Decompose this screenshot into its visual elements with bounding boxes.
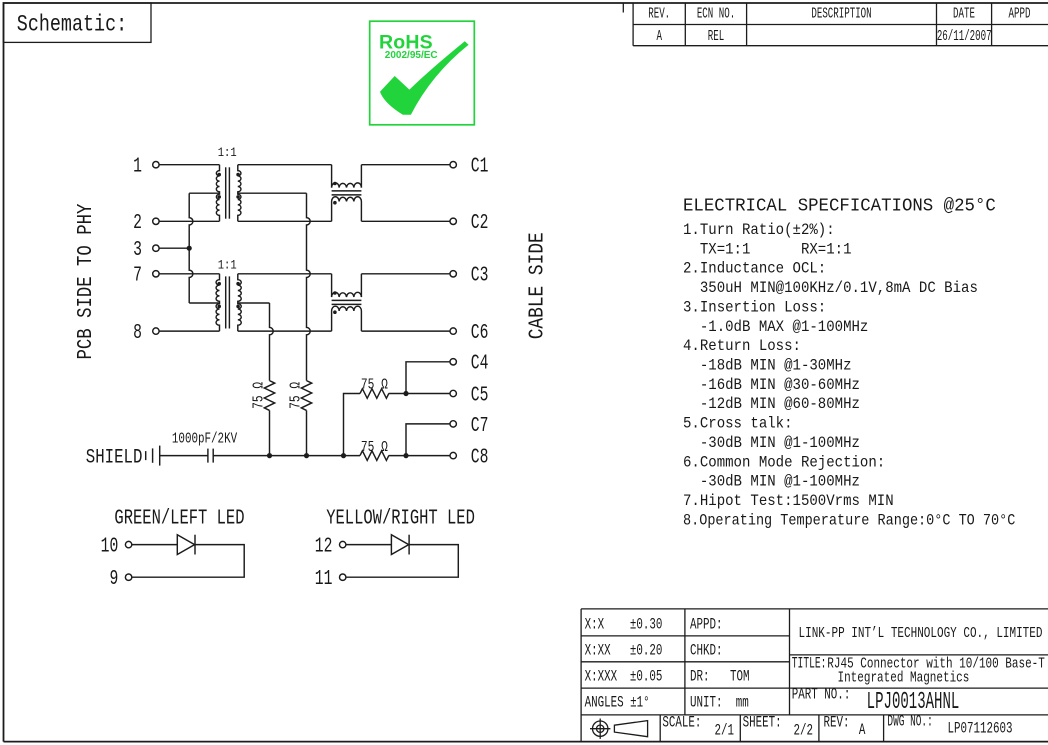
node title block <box>581 609 1048 742</box>
svg-text:±0.05: ±0.05 <box>630 669 663 686</box>
svg-text:CABLE SIDE: CABLE SIDE <box>525 232 549 339</box>
svg-text:REV:: REV: <box>824 715 850 732</box>
wire shield to C1000 <box>160 455 208 457</box>
svg-text:DWG NO.:: DWG NO.: <box>887 712 932 730</box>
wire 10 anode <box>132 544 178 546</box>
svg-text:12: 12 <box>315 535 333 558</box>
node pin 7 <box>133 264 159 287</box>
svg-text:C2: C2 <box>471 212 489 235</box>
svg-text:1:1: 1:1 <box>218 257 237 272</box>
diode LED green <box>177 535 195 555</box>
wire pin2 to T1 primary bottom <box>159 220 219 222</box>
wire T2 secondary top to CMC2 <box>238 273 332 275</box>
wire CMC to C1 <box>361 164 450 166</box>
node terminal C3 <box>450 264 488 287</box>
wire R4 to C8 <box>389 455 450 457</box>
svg-text:ANGLES ±1°: ANGLES ±1° <box>585 695 650 712</box>
svg-text:8: 8 <box>133 322 142 345</box>
svg-text:CHKD:: CHKD: <box>690 643 723 660</box>
svg-text:2002/95/EC: 2002/95/EC <box>385 50 438 61</box>
svg-text:PART NO.:: PART NO.: <box>792 687 851 704</box>
junction rail R2 <box>304 453 309 458</box>
resistor R3 75ohm <box>360 389 389 399</box>
svg-text:2/2: 2/2 <box>794 723 814 740</box>
wire pin7 to T2 primary top <box>159 273 219 275</box>
svg-text:1:1: 1:1 <box>218 145 237 160</box>
svg-text:350uH MIN@100KHz/0.1V,8mA DC B: 350uH MIN@100KHz/0.1V,8mA DC Bias <box>683 278 978 297</box>
svg-text:5.Cross talk:: 5.Cross talk: <box>683 414 793 433</box>
svg-text:-30dB MIN @1-100MHz: -30dB MIN @1-100MHz <box>683 433 860 452</box>
svg-text:ECN NO.: ECN NO. <box>697 6 735 23</box>
wire CMC to C2 <box>361 220 450 222</box>
wire C7 branch <box>406 424 450 456</box>
diode LED yellow <box>391 535 409 555</box>
wire pin1 to T1 primary top <box>159 164 219 166</box>
node terminal C5 <box>450 384 488 407</box>
svg-text:2: 2 <box>133 212 142 235</box>
transformer T2 1:1 <box>216 274 241 331</box>
svg-text:YELLOW/RIGHT LED: YELLOW/RIGHT LED <box>326 507 475 531</box>
wire center-tap vertical rail with hops <box>189 193 193 303</box>
svg-text:8.Operating Temperature Range:: 8.Operating Temperature Range:0°C TO 70°… <box>683 513 1015 530</box>
node pin 3 <box>133 239 159 262</box>
node pin 9 <box>109 568 131 591</box>
node terminal C4 <box>450 352 488 375</box>
wire T1 secondary top to CMC1 <box>238 164 332 166</box>
svg-text:4.Return Loss:: 4.Return Loss: <box>683 336 801 355</box>
wire T1 primary center tap <box>189 192 219 194</box>
transformer T1 1:1 <box>216 165 241 222</box>
svg-text:75 Ω: 75 Ω <box>361 438 388 455</box>
node pin 1 <box>133 155 159 178</box>
svg-text:X:X: X:X <box>585 617 605 634</box>
svg-text:2.Inductance OCL:: 2.Inductance OCL: <box>683 259 826 278</box>
node pin 8 <box>133 322 159 345</box>
node top fold mark <box>622 3 624 13</box>
svg-text:6.Common Mode Rejection:: 6.Common Mode Rejection: <box>683 452 885 471</box>
svg-text:C5: C5 <box>471 384 489 407</box>
wire T2 secondary center tap to R1 <box>238 302 270 304</box>
svg-text:SHIELD: SHIELD <box>86 447 143 469</box>
svg-text:APPD:: APPD: <box>690 617 723 634</box>
wire R3 left leg <box>344 394 361 456</box>
node Schematic title box <box>4 3 152 42</box>
svg-text:3: 3 <box>133 239 142 262</box>
svg-text:2/1: 2/1 <box>715 723 735 740</box>
svg-text:REL: REL <box>708 28 724 45</box>
svg-text:75 Ω: 75 Ω <box>361 376 388 393</box>
wire T1 secondary bottom to CMC1 <box>238 220 332 222</box>
wire T2 secondary bottom to CMC2 <box>238 330 332 332</box>
svg-text:REV.: REV. <box>648 6 670 23</box>
svg-text:±0.20: ±0.20 <box>630 643 663 660</box>
node projection symbol <box>590 719 648 739</box>
svg-text:7: 7 <box>133 264 142 287</box>
svg-text:Integrated Magnetics: Integrated Magnetics <box>838 669 970 686</box>
ground shield symbol <box>146 446 160 466</box>
wire CMC to C6 <box>361 330 450 332</box>
svg-text:C8: C8 <box>471 446 489 469</box>
svg-text:X:XX: X:XX <box>585 643 611 660</box>
svg-text:1.Turn Ratio(±2%):: 1.Turn Ratio(±2%): <box>683 220 835 239</box>
junction C8 node <box>403 453 408 458</box>
svg-text:11: 11 <box>315 568 333 591</box>
wire cathode loop to 9 <box>132 545 244 578</box>
svg-text:LINK-PP INT’L TECHNOLOGY CO.,: LINK-PP INT’L TECHNOLOGY CO., LIMITED <box>799 624 1043 641</box>
svg-text:GREEN/LEFT LED: GREEN/LEFT LED <box>114 507 244 531</box>
svg-text:-18dB MIN @1-30MHz: -18dB MIN @1-30MHz <box>683 356 852 375</box>
junction C5 node <box>403 391 408 396</box>
svg-text:DR:: DR: <box>690 669 710 686</box>
svg-text:Schematic:: Schematic: <box>17 13 127 38</box>
svg-text:A: A <box>859 722 866 739</box>
junction pin3 rail <box>187 246 192 251</box>
node terminal C2 <box>450 212 488 235</box>
svg-text:7.Hipot Test:1500Vrms MIN: 7.Hipot Test:1500Vrms MIN <box>683 491 894 510</box>
svg-text:-1.0dB MAX @1-100MHz: -1.0dB MAX @1-100MHz <box>683 317 868 336</box>
svg-text:75 Ω: 75 Ω <box>287 382 304 409</box>
svg-text:75 Ω: 75 Ω <box>250 382 267 409</box>
svg-text:TITLE:: TITLE: <box>792 654 827 672</box>
node terminal C1 <box>450 155 488 178</box>
choke L1 common mode <box>332 165 362 222</box>
wire T1 secondary center tap to R2 <box>238 192 307 194</box>
svg-text:C4: C4 <box>471 352 489 375</box>
resistor R4 75ohm <box>360 451 389 461</box>
wire 12 anode <box>346 544 392 546</box>
svg-text:SCALE:: SCALE: <box>662 715 701 732</box>
svg-text:TOM: TOM <box>730 669 750 686</box>
svg-text:PCB SIDE TO PHY: PCB SIDE TO PHY <box>73 203 97 359</box>
node pin 2 <box>133 212 159 235</box>
wire pin8 to T2 primary bottom <box>159 330 219 332</box>
svg-text:mm: mm <box>736 695 749 712</box>
svg-text:SHEET:: SHEET: <box>743 715 782 732</box>
svg-text:26/11/2007: 26/11/2007 <box>937 28 992 45</box>
wire CMC to C3 <box>361 273 450 275</box>
svg-text:X:XXX: X:XXX <box>585 669 618 686</box>
node pin 10 <box>101 535 132 558</box>
svg-text:9: 9 <box>109 568 118 591</box>
svg-text:10: 10 <box>101 535 119 558</box>
node RoHS logo <box>370 21 475 125</box>
svg-text:A: A <box>656 28 662 45</box>
svg-text:C3: C3 <box>471 264 489 287</box>
choke L2 common mode <box>332 274 362 331</box>
svg-text:1: 1 <box>133 155 142 178</box>
svg-text:LPJ0013AHNL: LPJ0013AHNL <box>867 688 960 715</box>
capacitor C 1000pF/2KV <box>208 449 213 463</box>
svg-text:DATE: DATE <box>953 6 975 23</box>
svg-text:C1: C1 <box>471 155 489 178</box>
node electrical specifications list <box>683 220 1015 530</box>
svg-text:C7: C7 <box>471 415 489 438</box>
svg-text:ELECTRICAL SPECFICATIONS @25°C: ELECTRICAL SPECFICATIONS @25°C <box>683 196 996 217</box>
wire cathode loop to 11 <box>346 545 458 578</box>
node terminal C8 <box>450 446 488 469</box>
svg-text:APPD: APPD <box>1009 6 1031 23</box>
svg-text:±0.30: ±0.30 <box>630 617 663 634</box>
svg-text:1000pF/2KV: 1000pF/2KV <box>172 430 237 447</box>
wire C4 branch <box>406 362 450 394</box>
node revision table <box>633 3 1048 46</box>
svg-text:LP07112603: LP07112603 <box>948 721 1013 738</box>
junction rail R1 <box>267 453 272 458</box>
wire T2 primary center tap <box>189 302 219 304</box>
wire ground rail <box>213 455 360 457</box>
svg-text:DESCRIPTION: DESCRIPTION <box>811 6 871 23</box>
svg-text:TX=1:1 RX=1:1: TX=1:1 RX=1:1 <box>683 239 852 258</box>
svg-text:-12dB MIN @60-80MHz: -12dB MIN @60-80MHz <box>683 394 860 413</box>
wire R3 to C5 junction <box>389 393 450 395</box>
svg-text:-16dB MIN @30-60MHz: -16dB MIN @30-60MHz <box>683 375 860 394</box>
junction rail R3 leg <box>341 453 346 458</box>
node terminal C6 <box>450 322 488 345</box>
node pin 12 <box>315 535 346 558</box>
node pin 11 <box>315 568 346 591</box>
svg-text:-30dB MIN @1-100MHz: -30dB MIN @1-100MHz <box>683 472 860 491</box>
svg-text:C6: C6 <box>471 322 489 345</box>
svg-text:3.Insertion Loss:: 3.Insertion Loss: <box>683 298 826 317</box>
svg-text:UNIT:: UNIT: <box>690 695 723 712</box>
resistor R2 75ohm <box>301 381 311 456</box>
wire pin3 to center-tap rail <box>159 247 189 249</box>
node terminal C7 <box>450 415 488 438</box>
resistor R1 75ohm <box>264 381 274 456</box>
